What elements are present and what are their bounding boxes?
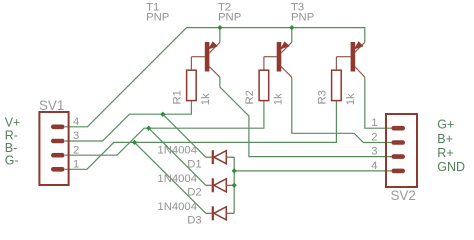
- svg-text:3: 3: [73, 130, 79, 142]
- node junction V+/T1 emitter: [217, 25, 222, 30]
- node junction G-/D3: [132, 140, 137, 145]
- transistor T2: [264, 41, 292, 77]
- svg-text:GND: GND: [437, 160, 465, 174]
- resistor R2: [259, 57, 269, 101]
- svg-text:1: 1: [371, 117, 377, 129]
- diode D1: [206, 150, 234, 164]
- wire net R+ from T1 collector to SV2 pin 3: [220, 77, 393, 156]
- svg-text:1k: 1k: [200, 93, 212, 105]
- diode D2: [206, 178, 234, 192]
- svg-text:G+: G+: [437, 118, 454, 132]
- wire branch B- to D2 cathode: [149, 128, 206, 185]
- svg-text:B+: B+: [437, 132, 453, 146]
- svg-text:D3: D3: [187, 215, 201, 227]
- svg-text:PNP: PNP: [218, 11, 241, 23]
- svg-text:1N4004: 1N4004: [157, 173, 197, 185]
- wire branch R- to D1 cathode: [163, 114, 206, 157]
- svg-text:1: 1: [73, 159, 79, 171]
- wire net B- from SV1 pin 2 to R2 bottom: [65, 101, 264, 156]
- transistor T3: [336, 41, 364, 77]
- svg-text:R+: R+: [437, 146, 453, 160]
- svg-text:R1: R1: [171, 90, 183, 104]
- svg-text:SV2: SV2: [391, 188, 416, 203]
- svg-text:4: 4: [371, 160, 377, 172]
- svg-text:R3: R3: [316, 90, 328, 104]
- wire net G+ from T3 collector to SV2 pin 1: [365, 77, 393, 128]
- connector SV2: [386, 114, 417, 187]
- wire net V+ from SV1 pin 4 up to emitter rail: [65, 28, 365, 127]
- node junction B-/D2: [146, 126, 151, 131]
- wire net B+ from T2 collector to SV2 pin 2: [292, 77, 393, 142]
- svg-text:3: 3: [371, 146, 377, 158]
- svg-text:R2: R2: [244, 90, 256, 104]
- wire net R- from SV1 pin 3 to R1 bottom: [65, 101, 191, 141]
- svg-text:1k: 1k: [345, 93, 357, 105]
- svg-text:1N4004: 1N4004: [157, 145, 197, 157]
- wire diode anode rail: [233, 157, 235, 213]
- wire V+ rail drop to T2 emitter: [291, 28, 293, 43]
- wire net G- from SV1 pin 1 to R3 bottom: [65, 101, 336, 170]
- wire V+ rail drop to T1 emitter: [219, 28, 221, 43]
- svg-text:SV1: SV1: [39, 98, 64, 113]
- node junction R-/D1: [160, 112, 165, 117]
- svg-text:1k: 1k: [273, 93, 285, 105]
- svg-text:4: 4: [73, 116, 79, 128]
- node junction GND rail: [232, 168, 237, 173]
- svg-text:2: 2: [73, 144, 79, 156]
- node junction D2 anode: [232, 183, 237, 188]
- connector SV1: [39, 112, 68, 185]
- transistor T1: [191, 41, 220, 77]
- diode D3: [206, 206, 234, 220]
- svg-text:D1: D1: [187, 158, 201, 170]
- resistor R3: [332, 57, 342, 101]
- wire net GND to SV2 pin 4: [234, 170, 393, 172]
- svg-text:PNP: PNP: [291, 11, 314, 23]
- svg-text:1N4004: 1N4004: [157, 201, 197, 213]
- resistor R1: [187, 57, 197, 101]
- svg-text:D2: D2: [187, 187, 201, 199]
- wire branch G- to D3 cathode: [135, 142, 206, 213]
- node junction V+/T2 emitter: [289, 25, 294, 30]
- svg-text:PNP: PNP: [146, 11, 169, 23]
- svg-text:2: 2: [371, 132, 377, 144]
- svg-text:G-: G-: [5, 154, 19, 168]
